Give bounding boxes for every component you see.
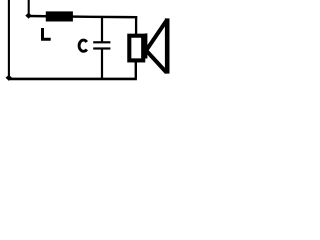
wire: top horizontal wire from node to corner bbox=[29, 16, 138, 17]
speaker LS1 driver rectangle bbox=[129, 36, 143, 61]
wire: bottom ground rail bbox=[8, 78, 137, 81]
wire: capacitor top stub bbox=[101, 17, 103, 42]
capacitor C top plate bbox=[93, 41, 110, 43]
speaker horn right bar bbox=[165, 18, 170, 73]
wire: capacitor bottom stub bbox=[101, 50, 103, 79]
node: top junction dot bbox=[25, 13, 32, 19]
speaker horn bottom diagonal bbox=[146, 51, 166, 73]
wire: left vertical input wire bbox=[8, 0, 10, 76]
label C (drawn as shapes) bbox=[79, 40, 87, 51]
node: bottom-left junction dot bbox=[6, 75, 13, 81]
inductor L (solid block symbol) bbox=[46, 11, 73, 21]
speaker horn top diagonal bbox=[146, 19, 167, 50]
capacitor C bottom plate bbox=[93, 47, 110, 49]
wire: right vertical drop to speaker top bbox=[135, 16, 137, 35]
wire: speaker bottom drop to rail bbox=[135, 61, 137, 78]
wire: top vertical input stub bbox=[28, 0, 30, 15]
label L (drawn as shapes) bbox=[41, 28, 51, 41]
speaker horn base bar bbox=[145, 33, 148, 58]
